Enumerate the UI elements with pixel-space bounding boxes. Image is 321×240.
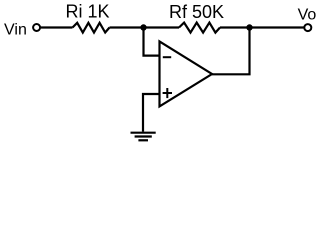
svg-text:Vo: Vo <box>298 7 317 24</box>
svg-text:Rf 50K: Rf 50K <box>169 2 224 22</box>
svg-text:Ri 1K: Ri 1K <box>66 2 110 22</box>
svg-text:Vin: Vin <box>4 21 27 38</box>
